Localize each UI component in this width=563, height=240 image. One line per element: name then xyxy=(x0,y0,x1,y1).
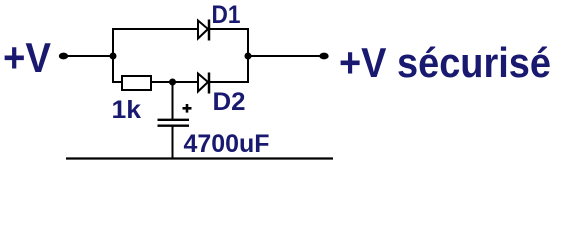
svg-text:+V: +V xyxy=(3,34,51,81)
junction node capacitor tap xyxy=(169,79,176,86)
junction node right xyxy=(245,53,252,60)
wire capacitor to ground rail xyxy=(172,126,174,159)
wire D2 cathode to right vertical xyxy=(209,81,249,83)
wire from +V terminal to left junction xyxy=(63,55,113,57)
capacitor C1 bottom plate xyxy=(158,124,190,126)
junction node left xyxy=(110,53,117,60)
diode D2 xyxy=(198,73,209,94)
svg-text:4700uF: 4700uF xyxy=(184,130,270,158)
wire D1 cathode to right vertical xyxy=(209,28,249,30)
wire resistor to D2 anode xyxy=(151,81,198,83)
wire right vertical branch xyxy=(247,28,249,83)
diode D1 xyxy=(198,20,209,41)
terminal dot left xyxy=(59,53,68,60)
wire right junction to output terminal xyxy=(248,55,322,57)
svg-text:D1: D1 xyxy=(212,1,241,29)
svg-text:D2: D2 xyxy=(213,88,246,116)
ground rail xyxy=(66,157,333,159)
wire left vertical branch xyxy=(112,28,114,83)
wire capacitor tap down to plus plate xyxy=(172,82,174,120)
terminal dot right xyxy=(319,53,328,60)
wire bottom branch to resistor xyxy=(113,81,122,83)
svg-text:+V sécurisé: +V sécurisé xyxy=(339,39,551,86)
svg-text:1k: 1k xyxy=(112,96,142,124)
capacitor C1 top plate xyxy=(158,119,190,121)
polarity plus mark xyxy=(183,104,192,113)
resistor R1 1k xyxy=(122,76,151,90)
wire top branch to D1 anode xyxy=(112,28,198,30)
